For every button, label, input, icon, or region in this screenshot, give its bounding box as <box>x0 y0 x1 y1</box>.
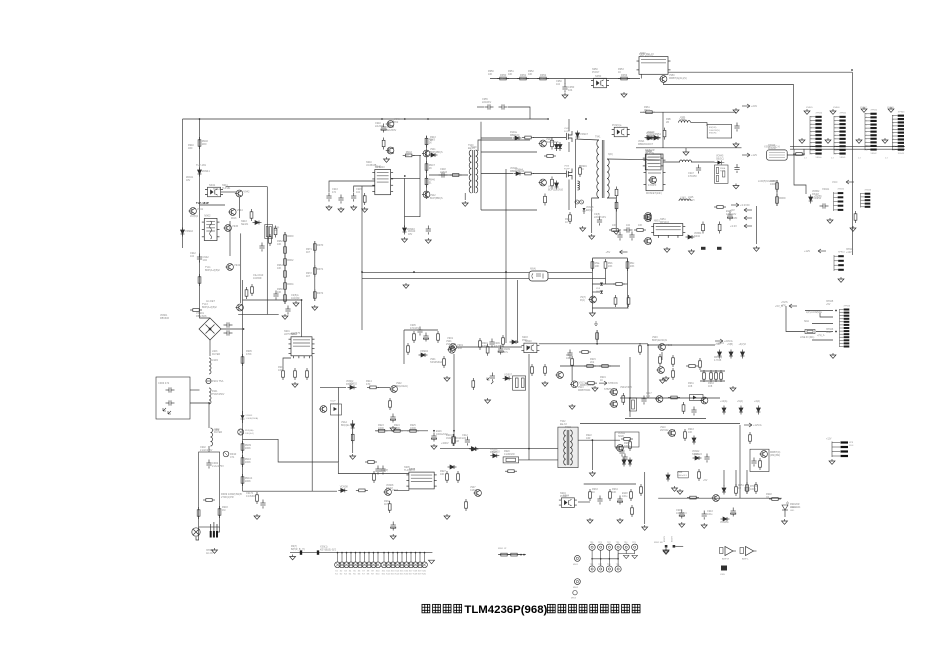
resistor R920h <box>503 457 518 463</box>
svg-text:9: 9 <box>893 143 894 145</box>
diode VD948b <box>583 208 586 211</box>
resistor R944 <box>274 226 277 238</box>
diode block D945b <box>690 395 704 401</box>
diode VD951 <box>652 136 661 140</box>
resistor R934 <box>609 489 612 501</box>
svg-text:N941: N941 <box>209 183 216 187</box>
diode VD907 <box>503 376 512 380</box>
transistor V903c <box>319 406 327 413</box>
svg-text:1000/35(V): 1000/35(V) <box>709 130 720 132</box>
svg-text:6: 6 <box>866 132 867 134</box>
wire fb column <box>739 425 741 498</box>
wire r942 out <box>413 154 421 156</box>
ground <box>825 138 831 143</box>
resistor R962 <box>284 256 287 268</box>
wire header bus A <box>790 146 905 148</box>
wire xp945 p1 <box>805 310 833 312</box>
diode VD910 <box>490 454 499 458</box>
wire v903 down <box>647 345 649 398</box>
svg-text:FQPF: FQPF <box>564 131 570 133</box>
resistor R946 <box>425 176 428 188</box>
svg-text:1R0: 1R0 <box>188 147 193 150</box>
transistor V913 <box>570 381 578 388</box>
net STB/ON <box>599 381 607 385</box>
svg-text:R972: R972 <box>317 291 324 295</box>
ground <box>350 454 356 459</box>
capacitor C947b <box>624 227 633 232</box>
junction <box>629 397 631 399</box>
transistor V947c <box>589 296 597 303</box>
wire xp945 p8 <box>816 331 833 333</box>
svg-text:10: 10 <box>866 146 868 148</box>
resistor R953b <box>615 200 618 212</box>
svg-text:471: 471 <box>230 455 235 459</box>
wire xf gnd <box>464 193 466 200</box>
junction <box>361 271 363 273</box>
wire r917 <box>596 330 598 344</box>
wire jumper <box>500 554 527 556</box>
junction <box>851 69 853 71</box>
ground <box>642 525 648 530</box>
svg-text:XS943: XS943 <box>865 190 872 192</box>
wire v913 <box>571 368 573 381</box>
connector XP945 <box>840 309 844 347</box>
diode VD904b <box>351 422 355 431</box>
net +3.3V/D <box>731 203 739 207</box>
wire fb right <box>627 258 629 308</box>
diode VD922 <box>693 456 702 460</box>
resistor R9101 <box>793 153 805 156</box>
ground <box>403 283 409 288</box>
ground <box>293 301 299 306</box>
svg-text:LINE IN (R/L): LINE IN (R/L) <box>800 336 815 339</box>
svg-text:B500V: B500V <box>672 535 674 542</box>
diode VD930 <box>300 550 302 554</box>
resistor R945b <box>522 136 534 139</box>
transistor V905b <box>700 397 708 404</box>
resistor R948 <box>450 174 462 177</box>
junction <box>453 430 455 432</box>
svg-text:XP943: XP943 <box>898 112 905 114</box>
diode ZD944 <box>555 142 559 151</box>
wire res row <box>560 365 620 367</box>
svg-text:11: 11 <box>811 153 813 155</box>
capacitor C943 <box>326 193 331 202</box>
wire base link <box>200 204 226 206</box>
svg-text:1: 1 <box>866 114 867 116</box>
wire sec top <box>607 158 660 161</box>
svg-text:+5V: +5V <box>606 250 611 254</box>
svg-text:BD(4)E-10: BD(4)E-10 <box>341 424 353 427</box>
svg-text:V904/V905: V904/V905 <box>620 386 633 389</box>
resistor R952 <box>537 77 549 80</box>
svg-text:104(P): 104(P) <box>381 469 388 472</box>
svg-text:XS945: XS945 <box>806 107 813 109</box>
resistor R994 <box>755 482 758 494</box>
net +5V <box>744 208 752 212</box>
svg-text:102: 102 <box>626 224 631 227</box>
svg-text:SB(5C): SB(5C) <box>716 158 724 161</box>
svg-text:(PL)(5)F: (PL)(5)F <box>645 152 654 155</box>
svg-text:LD7575PS: LD7575PS <box>284 333 296 336</box>
capacitor C965b <box>734 164 739 173</box>
ground <box>688 249 694 254</box>
svg-text:AC-DET: AC-DET <box>206 300 215 303</box>
capacitor C958b <box>691 407 696 416</box>
junction <box>433 430 435 432</box>
test points bottom row <box>591 559 593 566</box>
svg-text:11: 11 <box>835 153 837 155</box>
svg-text:10: 10 <box>811 150 813 152</box>
svg-text:7: 7 <box>835 139 836 141</box>
ground <box>589 311 595 316</box>
diode ZD946 <box>555 181 559 190</box>
ground <box>462 201 468 206</box>
svg-text:TVS-A: TVS-A <box>213 188 220 191</box>
capacitor C941b <box>426 226 431 235</box>
wire to L902 <box>208 404 210 428</box>
svg-text:STB/ON: STB/ON <box>608 381 618 385</box>
resistor R924 <box>391 429 403 432</box>
ground <box>444 376 450 381</box>
diode VD904 <box>419 353 428 357</box>
connector XS901 key strip <box>337 552 339 554</box>
svg-text:VD907: VD907 <box>504 372 512 376</box>
resistor R958 <box>551 177 554 189</box>
svg-text:100R: 100R <box>410 427 416 430</box>
svg-text:1M: 1M <box>222 509 225 512</box>
wire lvds feed <box>794 149 806 194</box>
svg-text:B(P)R_B_(7): B(P)R_B_(7) <box>291 548 305 551</box>
svg-text:RS1M: RS1M <box>386 487 393 490</box>
ground <box>753 246 759 251</box>
ground <box>290 555 296 560</box>
wire fet drain <box>404 179 406 227</box>
resistor R962 <box>663 128 666 140</box>
svg-text:XP942: XP942 <box>871 110 878 112</box>
svg-text:RELAY/12V: RELAY/12V <box>640 55 653 58</box>
wire box link2 <box>190 402 209 404</box>
svg-text:R951 JP: R951 JP <box>498 548 507 550</box>
wire n901 fb vert <box>311 356 313 491</box>
wire xp945 left <box>786 306 805 332</box>
resistor R966 <box>718 222 721 234</box>
svg-text:MP1410: MP1410 <box>660 221 670 224</box>
capacitor E947 <box>391 522 396 531</box>
svg-text:AMP-R: AMP-R <box>722 558 729 561</box>
resistor R932 <box>388 501 391 513</box>
svg-text:L(P)-CON(M)E: L(P)-CON(M)E <box>806 311 822 314</box>
svg-text:TL431: TL431 <box>404 469 411 472</box>
ground <box>664 247 670 252</box>
svg-text:104: 104 <box>190 255 195 258</box>
ground <box>621 92 627 97</box>
svg-text:1M: 1M <box>455 439 459 443</box>
net +12V <box>818 249 826 253</box>
svg-text:XS942: XS942 <box>871 153 878 155</box>
resistor R972 <box>313 289 316 301</box>
svg-text:+3(V)3: +3(V)3 <box>739 343 747 346</box>
fb box N906b <box>750 449 769 471</box>
ic N901 <box>289 337 315 359</box>
diode VD916 <box>729 350 733 359</box>
svg-text:47R: 47R <box>366 383 371 386</box>
svg-text:C920/104: C920/104 <box>790 506 801 509</box>
resistor R984 <box>668 396 680 399</box>
svg-text:PC817: PC817 <box>560 495 568 498</box>
svg-text:R969: R969 <box>779 196 786 200</box>
resistor R942 <box>403 154 415 157</box>
svg-text:C903 472: C903 472 <box>158 381 170 385</box>
svg-text:+12V: +12V <box>846 251 852 254</box>
svg-text:9: 9 <box>811 146 812 148</box>
svg-text:10K: 10K <box>566 357 571 360</box>
svg-text:7: 7 <box>866 135 867 137</box>
wire loop bottom <box>238 313 279 315</box>
diode VD945c <box>718 161 722 165</box>
mount hole M901 <box>575 556 581 562</box>
resistor R957 <box>551 138 554 150</box>
svg-text:+24V/A: +24V/A <box>724 339 733 343</box>
svg-text:BDP(A-2)(B)2: BDP(A-2)(B)2 <box>205 269 220 272</box>
transistor V902b <box>390 386 398 393</box>
svg-text:SF28: SF28 <box>618 435 624 438</box>
svg-text:VD904: VD904 <box>420 349 428 353</box>
svg-text:0.1/630V: 0.1/630V <box>246 495 256 498</box>
svg-text:R9BB: R9BB <box>720 171 726 173</box>
zener ZD950 <box>600 283 603 286</box>
resistor R978 <box>579 351 591 354</box>
svg-text:+3(A): +3(A) <box>754 400 760 403</box>
wire snub vert <box>403 330 405 364</box>
junction <box>647 344 649 346</box>
ground <box>562 93 568 98</box>
connector XS942 <box>834 192 838 211</box>
svg-text:V942: V942 <box>243 190 250 194</box>
svg-text:SS34: SS34 <box>694 235 701 238</box>
svg-text:XS942: XS942 <box>838 189 845 191</box>
resistor R985 <box>682 402 685 414</box>
svg-text:6: 6 <box>811 135 812 137</box>
wire mid bus B <box>362 277 529 279</box>
wire z2 <box>735 470 737 486</box>
wire n901 top <box>301 300 303 337</box>
capacitor C959b <box>751 458 756 467</box>
resistor R933 <box>589 489 592 501</box>
transistor V902 <box>447 346 455 353</box>
ground <box>617 518 623 523</box>
svg-text:5: 5 <box>811 131 812 133</box>
resistor R908 <box>306 368 309 380</box>
svg-text:R953: R953 <box>621 73 628 77</box>
resistor R919 <box>452 434 455 446</box>
wire 300V rail <box>440 448 558 450</box>
resistor R980 <box>672 368 675 380</box>
ground <box>292 382 298 387</box>
svg-text:BCP(5BK)S: BCP(5BK)S <box>430 197 443 200</box>
diode VD918 <box>722 406 726 415</box>
svg-text:4K7: 4K7 <box>384 503 389 506</box>
connector XP944 <box>834 255 838 271</box>
transformer T902 box <box>558 427 578 468</box>
net +5V <box>620 250 628 254</box>
svg-text:4: 4 <box>835 128 836 130</box>
ground <box>589 234 595 239</box>
ic N940 <box>372 170 393 195</box>
svg-text:MOSFET(24F): MOSFET(24F) <box>646 192 662 195</box>
ground <box>677 489 683 494</box>
svg-text:10K: 10K <box>612 491 617 494</box>
svg-text:10: 10 <box>893 146 895 148</box>
resistor R946 <box>198 274 201 286</box>
ground <box>730 386 736 391</box>
svg-text:8: 8 <box>835 142 836 144</box>
ground <box>592 386 598 391</box>
wire fb mid <box>605 271 607 284</box>
wire 5v rail <box>755 206 757 244</box>
ground <box>390 426 396 431</box>
svg-text:100K: 100K <box>245 446 251 450</box>
wire mid bus A2 <box>548 272 592 274</box>
resistor R949c <box>498 553 510 556</box>
resistor R943b <box>684 429 687 441</box>
resistor R965 <box>284 292 287 304</box>
svg-text:SS14: SS14 <box>692 453 699 456</box>
ground <box>589 471 595 476</box>
wire ic left <box>329 181 375 192</box>
svg-text:5: 5 <box>893 129 894 131</box>
capacitor C912b <box>375 466 380 475</box>
svg-text:B500V: B500V <box>664 535 666 542</box>
optocoupler N903 <box>521 343 539 353</box>
svg-text:P621: P621 <box>522 339 528 342</box>
ground <box>861 107 867 112</box>
fuse F901 <box>206 378 211 383</box>
resistor R965 <box>702 222 705 234</box>
wire sec bot <box>607 198 616 228</box>
wire audio rail <box>658 497 782 499</box>
ground <box>830 353 836 358</box>
resistor R976 <box>479 338 482 350</box>
resistor R915 <box>389 398 392 410</box>
svg-text:AMP-L: AMP-L <box>742 558 749 561</box>
resistor R927 <box>446 471 449 483</box>
svg-text:MMBT(A)(4L)(S): MMBT(A)(4L)(S) <box>669 77 687 80</box>
svg-text:XP940: XP940 <box>816 113 823 115</box>
svg-text:2: 2 <box>835 120 836 122</box>
svg-text:Y(L)P: Y(L)P <box>330 401 336 403</box>
resistor R930 <box>373 471 376 483</box>
resistor R951c <box>250 209 253 221</box>
capacitor C964b <box>734 123 739 132</box>
svg-text:+5(A): +5(A) <box>737 400 743 403</box>
svg-text:6: 6 <box>893 133 894 135</box>
svg-text:8: 8 <box>866 139 867 141</box>
svg-text:FFC/6P: FFC/6P <box>768 147 777 150</box>
wire main top bus <box>183 118 548 120</box>
capacitor C912 <box>465 437 470 446</box>
svg-text:100u: 100u <box>707 513 713 516</box>
svg-text:11: 11 <box>866 149 868 151</box>
svg-text:2K: 2K <box>430 139 433 142</box>
resistor R912b <box>256 492 259 504</box>
capacitor E953 <box>679 510 684 519</box>
wire strip bus <box>290 552 432 554</box>
svg-text:4: 4 <box>893 126 894 128</box>
svg-text:KEY(B)(5)-S(7): KEY(B)(5)-S(7) <box>320 549 336 552</box>
resistor R991 <box>749 432 752 444</box>
svg-text:10K: 10K <box>277 267 282 270</box>
wire bridge out <box>209 340 211 356</box>
optocoupler N946 <box>612 127 630 137</box>
svg-text:6: 6 <box>835 135 836 137</box>
wire mid link <box>481 151 537 153</box>
wire mid vert <box>361 186 363 330</box>
resistor R9A <box>365 461 377 464</box>
wire drive column <box>426 136 428 199</box>
transistor V904 <box>609 389 617 396</box>
wire out rail <box>648 344 715 346</box>
svg-text:100R: 100R <box>750 488 756 491</box>
resistor R918 <box>571 356 574 368</box>
resistor R963b <box>634 229 646 232</box>
resistor R911 <box>413 331 416 343</box>
svg-text:V907: V907 <box>392 488 399 492</box>
resistor R952c <box>245 287 248 299</box>
svg-text:FILTER: FILTER <box>214 431 222 434</box>
svg-text:22u/50V: 22u/50V <box>387 128 397 132</box>
wire xp945 sda <box>812 323 833 325</box>
svg-text:MBR160: MBR160 <box>510 134 520 137</box>
resistor R943 <box>425 136 428 148</box>
svg-text:470/25V: 470/25V <box>688 175 697 178</box>
svg-text:V945: V945 <box>232 224 239 228</box>
gnd arrow tp1 <box>623 555 629 558</box>
capacitor C909 <box>498 346 503 355</box>
resistor R928 <box>457 471 460 483</box>
diode ZD941 <box>198 168 202 177</box>
svg-text:10K: 10K <box>688 431 693 434</box>
net +5V/D <box>744 216 752 220</box>
capacitor C945 <box>351 193 356 202</box>
resistor R950 <box>497 77 509 80</box>
svg-text:R9BA: R9BA <box>720 167 726 170</box>
resistor R9d <box>613 283 625 286</box>
ground <box>888 107 894 112</box>
wire pri in <box>519 459 558 461</box>
resistor pack R9B <box>265 225 273 239</box>
svg-text:2N7002: 2N7002 <box>660 429 669 432</box>
svg-text:SE431: SE431 <box>241 223 249 226</box>
net +24V <box>742 104 750 108</box>
diode VD908 <box>338 488 347 492</box>
svg-text:E9(UR): E9(UR) <box>709 133 717 135</box>
resistor R913 <box>443 356 446 368</box>
wire v942 down <box>238 197 240 218</box>
transistor V913 <box>236 304 244 311</box>
resistor R964 <box>284 280 287 292</box>
junction <box>596 343 598 345</box>
optocoupler N950 <box>591 78 609 88</box>
resistor R906 <box>282 368 285 380</box>
ground <box>882 138 888 143</box>
svg-text:FILTER: FILTER <box>212 353 220 356</box>
svg-text:3: 3 <box>893 122 894 124</box>
svg-text:N902: N902 <box>204 214 211 218</box>
svg-text:V946: V946 <box>564 166 570 168</box>
ground <box>782 519 788 524</box>
transistor V905 <box>609 401 617 408</box>
